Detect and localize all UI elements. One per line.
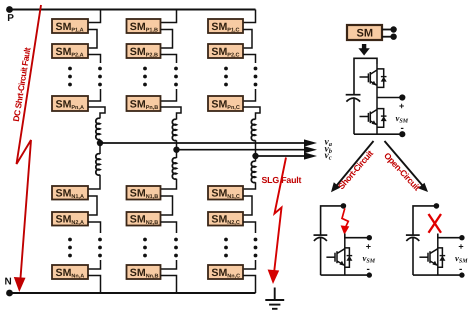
SM Nn,A <box>52 265 88 280</box>
SM Pn,A <box>52 96 88 111</box>
svg-text:N: N <box>5 277 12 288</box>
node OC + terminal dot <box>459 235 464 240</box>
node - terminal dot <box>399 131 405 137</box>
ellipsis dots arm B lower (bus column) <box>174 238 178 258</box>
inductor arm B lower <box>172 158 176 179</box>
wire: inductor to phase B node <box>176 140 178 149</box>
IGBT Q3 emitter arrow <box>339 261 344 266</box>
wire: phase A output line <box>100 142 309 144</box>
wire: SM N2,C down to ellipsis <box>243 222 256 233</box>
wire: bus drop to SM P1,C <box>243 10 256 23</box>
wire: phase B node to lower inductor <box>176 150 178 158</box>
node OC - terminal dot <box>459 272 464 277</box>
phase B arrowhead <box>304 146 317 153</box>
wire: phase C node to lower inductor <box>255 156 257 162</box>
node phase A junction dot <box>97 140 103 146</box>
capacitor C1 <box>346 95 361 102</box>
inductor arm A lower <box>96 154 100 175</box>
SM Nn,B <box>127 265 161 280</box>
diode D1 symbol <box>381 77 387 82</box>
node N terminal dot <box>6 290 13 297</box>
ellipsis dots arm B upper (box column) <box>143 67 147 87</box>
svg-text:P: P <box>7 13 14 24</box>
capacitor C3 <box>406 235 420 241</box>
SM N1,C <box>208 186 243 200</box>
SM P2,B <box>127 44 161 59</box>
phase A arrowhead <box>304 139 317 146</box>
wire: OC top rail <box>413 206 435 235</box>
wire: OC mid rail to + terminal <box>438 234 461 238</box>
wire: bus drop to SM P1,B <box>161 10 177 23</box>
wire: ellipsis to SM Nn,B <box>161 260 177 269</box>
wire: SM Nn,B to negative bus <box>161 276 177 294</box>
wire: SM N1,B to SM N2,B <box>161 196 173 215</box>
wire: SM Nn,A to negative bus <box>88 276 101 294</box>
wire: SM N2,A down to ellipsis <box>88 222 101 233</box>
SM N2,B <box>127 212 161 226</box>
SM Pn,C <box>208 96 243 111</box>
wire: ellipsis to SM Pn,C <box>243 89 256 101</box>
wire: inductor to SM N1,B <box>161 179 177 189</box>
SM block <box>347 25 382 40</box>
wire: SM P1,C to SM P2,C <box>243 30 252 49</box>
IGBT Q1 emitter arrow <box>372 81 377 86</box>
svg-text:SM: SM <box>357 28 374 40</box>
node phase C junction dot <box>252 153 258 159</box>
wire: inductor to phase C node <box>255 140 257 156</box>
ellipsis dots arm A upper (bus column) <box>98 67 102 87</box>
wire: positive DC bus P <box>9 9 256 11</box>
node SC - terminal dot <box>367 272 372 277</box>
wire: HB mid node to + terminal <box>377 97 401 99</box>
inductor arm C lower <box>251 161 255 182</box>
short-circuit case arrow <box>335 141 374 188</box>
wire: bus drop to SM P1,A <box>88 10 101 23</box>
ellipsis dots arm C upper (box column) <box>224 67 228 87</box>
short-circuit bolt arrowhead <box>341 225 350 235</box>
IGBT Q2 emitter arrow <box>372 120 377 125</box>
svg-text:+: + <box>458 242 463 252</box>
ellipsis dots arm C lower (box column) <box>224 238 228 258</box>
wire: ellipsis to SM Pn,B <box>161 89 177 101</box>
inductor arm A upper <box>96 118 100 139</box>
ellipsis dots arm A lower (box column) <box>68 238 72 258</box>
diode D3 symbol <box>346 256 352 261</box>
SLG fault bolt arrowhead <box>268 270 280 285</box>
ellipsis dots arm C upper (bus column) <box>254 67 258 87</box>
node phase B junction dot <box>173 147 179 153</box>
wire: SM P1,A to SM P2,A <box>88 30 97 49</box>
SM Nn,C <box>208 265 243 280</box>
ellipsis dots arm B upper (bus column) <box>174 67 178 87</box>
SM P2,C <box>208 44 243 59</box>
wire: phase A node to lower inductor <box>99 143 101 154</box>
SM N2,C <box>208 212 243 226</box>
node + terminal dot <box>399 94 405 100</box>
expansion arrow <box>358 44 369 56</box>
wire: inductor to SM N1,C <box>243 182 256 189</box>
wire: SM Nn,C to negative bus <box>243 276 256 294</box>
wire: HB top rail <box>354 58 377 95</box>
inductor arm B upper <box>172 119 176 140</box>
wire: ellipsis to SM Pn,A <box>88 89 101 101</box>
wire: SM P2,C down to ellipsis <box>243 55 256 64</box>
short-circuit bolt <box>342 208 348 227</box>
SM Pn,B <box>127 96 161 111</box>
SM block terminal leads <box>382 30 392 37</box>
wire: inductor to phase A node <box>99 139 101 143</box>
wire: ellipsis to SM Nn,C <box>243 260 256 269</box>
capacitor C2 <box>314 235 328 241</box>
wire: OC bottom rail to - terminal <box>413 274 461 276</box>
IGBT Q4 with diode D4 <box>419 238 442 275</box>
node SC top dot <box>341 203 347 209</box>
ellipsis dots arm A upper (box column) <box>68 67 72 87</box>
wire: HB left rail below cap <box>353 97 355 134</box>
diode D4 symbol <box>439 256 445 261</box>
wire: SM Pn,C to arm inductor C upper <box>243 107 260 120</box>
node SC + terminal dot <box>367 235 372 240</box>
IGBT Q1 with diode D1 <box>360 64 384 98</box>
SM block terminal dots <box>390 26 396 32</box>
ellipsis dots arm B lower (box column) <box>143 238 147 258</box>
node OC top dot <box>434 203 440 209</box>
wire: SM N1,A to SM N2,A <box>88 196 97 215</box>
ellipsis dots arm C lower (bus column) <box>254 238 258 258</box>
wire: SM P2,B down to ellipsis <box>161 55 177 64</box>
wire: OC left rail below cap <box>412 237 414 275</box>
inductor arm C upper <box>251 119 255 140</box>
wire: SC top rail <box>321 206 342 235</box>
wire: negative DC bus N <box>9 292 256 294</box>
wire: inductor to SM N1,A <box>88 175 100 189</box>
SM N2,A <box>52 212 88 226</box>
wire: SM P2,A down to ellipsis <box>88 55 101 64</box>
SM P2,A <box>52 44 88 59</box>
open-circuit X mark <box>429 214 442 233</box>
DC fault bolt arrowhead <box>14 277 26 292</box>
wire: SM N1,C to SM N2,C <box>243 196 252 215</box>
wire: SM Pn,A to arm inductor A upper <box>88 107 105 119</box>
wire: SC mid rail to + terminal <box>345 234 368 238</box>
ground symbol <box>265 288 284 309</box>
wire: SM P1,B to SM P2,B <box>161 30 173 49</box>
ellipsis dots arm A lower (bus column) <box>98 238 102 258</box>
open-circuit case arrow <box>385 141 425 187</box>
node P terminal dot <box>6 6 13 13</box>
IGBT Q2 with diode D2 <box>360 98 384 135</box>
wire: SM Pn,B to arm inductor B upper <box>161 107 182 120</box>
SM P1,C <box>208 19 243 34</box>
wire: phase B output line <box>177 149 310 151</box>
SM N1,A <box>52 186 88 200</box>
wire: SM N2,B down to ellipsis <box>161 222 177 233</box>
IGBT Q4 emitter arrow <box>432 261 437 266</box>
SM N1,B <box>127 186 161 200</box>
wire: phase C output line <box>256 155 310 157</box>
wire: SC left rail below cap <box>320 237 322 275</box>
phase C arrowhead <box>304 152 317 159</box>
SM P1,A <box>52 19 88 34</box>
wire: SC bottom rail to - terminal <box>321 274 368 276</box>
svg-text:+: + <box>366 242 371 252</box>
diode D2 symbol <box>381 116 387 121</box>
IGBT Q3 with diode D3 <box>326 238 349 275</box>
wire: HB bottom rail to - terminal <box>354 133 401 135</box>
SM P1,B <box>127 19 161 34</box>
svg-text:+: + <box>399 101 404 111</box>
SLG fault bolt <box>274 158 286 276</box>
wire: ellipsis to SM Nn,A <box>88 260 101 269</box>
DC short-circuit fault bolt <box>17 5 42 282</box>
